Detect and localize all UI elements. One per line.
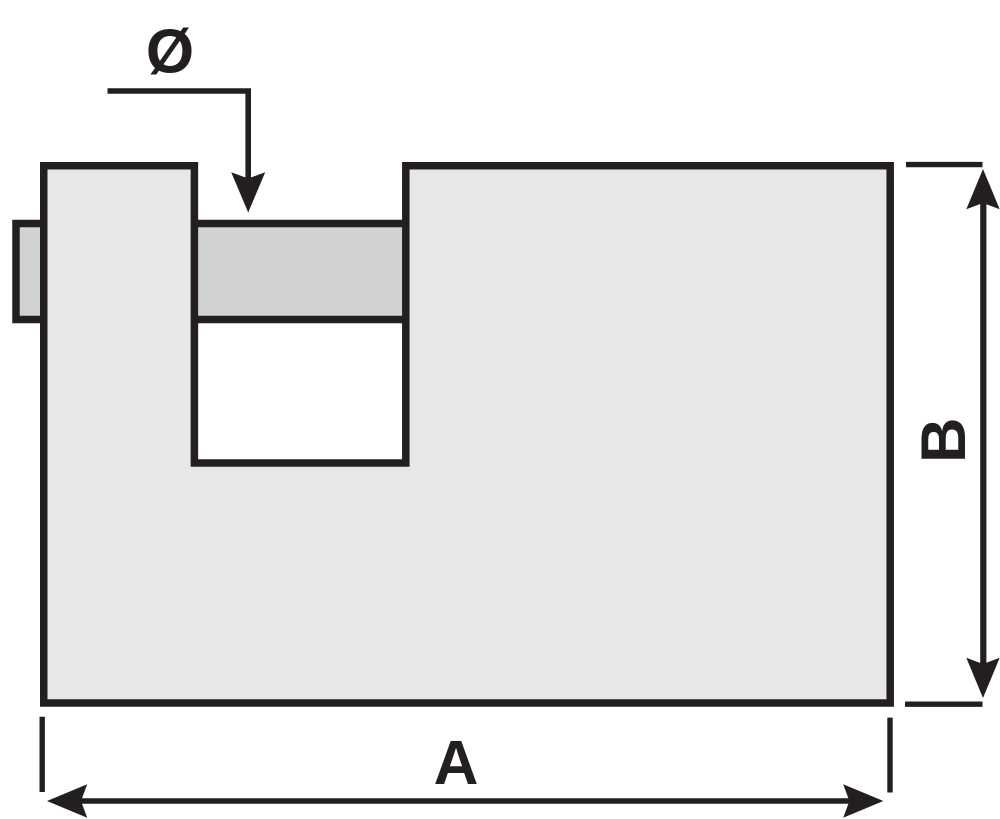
extension line bottom (for B): [905, 702, 983, 707]
arrowhead B bottom: [966, 658, 999, 698]
shackle (horizontal bar through notch, left tab protruding): [16, 224, 412, 320]
svg-text:B: B: [909, 418, 979, 464]
leader arrowhead pointing down at shackle: [231, 172, 265, 212]
dimension line A: [78, 798, 852, 804]
label B: [909, 418, 979, 464]
svg-text:Ø: Ø: [146, 17, 194, 86]
arrowhead B top: [966, 169, 999, 209]
extension line right (for A): [887, 718, 892, 793]
extension line left (for A): [40, 717, 45, 792]
arrowhead A right: [843, 784, 883, 817]
dimension line B: [980, 200, 986, 667]
svg-text:A: A: [434, 729, 479, 798]
padlock body (U-notched block): [44, 166, 890, 703]
extension line top (for B): [906, 162, 983, 167]
arrowhead A left: [47, 784, 87, 817]
leader line for Ø: [108, 91, 249, 180]
